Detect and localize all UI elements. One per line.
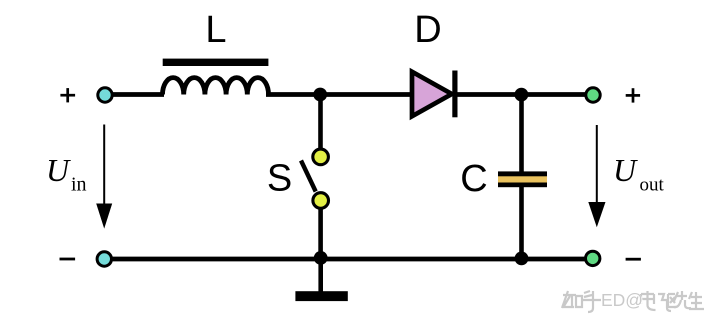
node junction bottom switch (314, 251, 328, 265)
arrow U_out direction (588, 125, 605, 227)
wire bottom rail (104, 257, 590, 262)
svg-text:S: S (267, 157, 292, 199)
watermark zhihu (562, 290, 705, 313)
capacitor C plates outline (498, 171, 547, 187)
wire ground stem (318, 258, 323, 293)
capacitor C gold dielectric band (498, 176, 547, 182)
node junction top capacitor (515, 88, 529, 102)
svg-text:out: out (640, 175, 665, 196)
terminal input - (cyan) (97, 252, 111, 266)
terminal input + (cyan) (98, 88, 112, 102)
plus sign input (60, 88, 75, 102)
arrow U_in direction (96, 125, 112, 229)
wire capacitor branch upper (top rail to cap) (519, 92, 524, 173)
wire switch branch upper (top rail to switch) (318, 92, 323, 152)
terminal output + (green) (586, 88, 600, 102)
wire top rail right segment (diode to output +) (455, 92, 590, 97)
minus sign input (60, 258, 76, 261)
node junction top switch (313, 88, 327, 102)
inductor L coil (163, 78, 269, 95)
wire capacitor branch lower (cap to bottom rail) (519, 185, 524, 261)
svg-text:ED@: ED@ (601, 290, 643, 310)
svg-text:U: U (613, 152, 638, 188)
svg-text:D: D (414, 9, 441, 51)
switch S lever (301, 161, 316, 192)
wire top rail left segment (input + to inductor) (105, 92, 164, 97)
plus sign output (626, 88, 640, 102)
switch S bottom contact (313, 193, 329, 209)
diode D cathode bar (452, 71, 457, 118)
label U_in (46, 152, 87, 196)
svg-text:in: in (71, 174, 87, 196)
wire top rail middle segment (inductor to diode) (266, 92, 412, 97)
wire switch branch lower (switch to bottom rail) (318, 205, 323, 261)
svg-text:C: C (460, 158, 487, 200)
minus sign output (626, 258, 641, 261)
node junction bottom capacitor (515, 252, 529, 266)
svg-text:U: U (46, 152, 71, 188)
diode D triangle (412, 72, 452, 117)
terminal output - (green) (586, 251, 600, 265)
inductor L core bar (163, 59, 269, 66)
switch S top contact (313, 149, 329, 165)
svg-text:L: L (205, 9, 226, 51)
ground bar (295, 291, 347, 301)
label U_out (613, 152, 665, 196)
